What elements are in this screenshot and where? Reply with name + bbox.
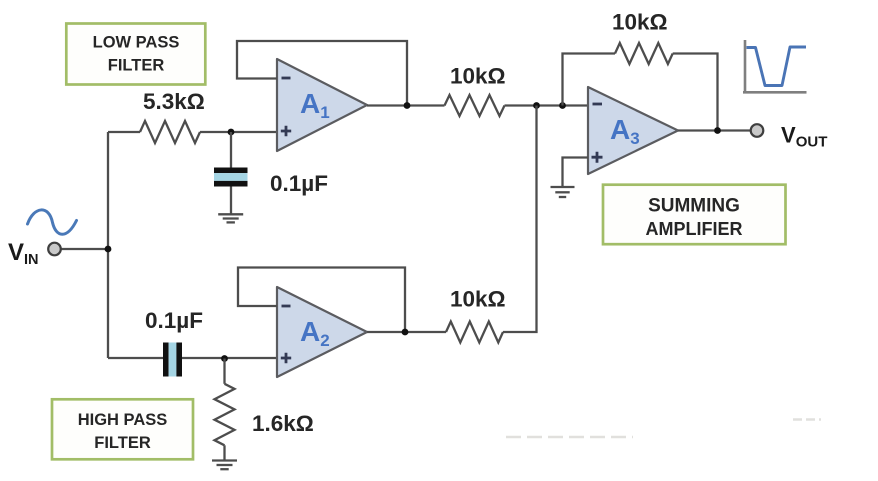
- wire: R1 to A1 non-inverting input: [200, 131, 278, 133]
- wire: R2 to A3 inverting input: [505, 104, 589, 106]
- resistor R5 10k feedback zigzag: [615, 43, 673, 64]
- svg-text:LOW PASS: LOW PASS: [93, 34, 180, 52]
- wire: C1 to ground: [230, 187, 232, 214]
- label box: SUMMING AMPLIFIER: [603, 185, 786, 245]
- wire: R4 up to summing junction: [503, 106, 537, 333]
- wire: node down to capacitor C1: [230, 132, 232, 168]
- op-amp A2: [277, 287, 367, 377]
- terminal: Vin: [48, 243, 61, 256]
- wire: A1 output rail to R2: [367, 104, 445, 106]
- output waveform icon (notch response): [743, 40, 807, 93]
- label box: LOW PASS FILTER: [66, 24, 205, 85]
- svg-text:FILTER: FILTER: [94, 434, 151, 452]
- svg-text:5.3kΩ: 5.3kΩ: [143, 89, 205, 114]
- ground at A3 non-inverting input: [551, 187, 575, 197]
- svg-text:1.6kΩ: 1.6kΩ: [252, 411, 314, 436]
- wire: C2 to A2 non-inverting input: [182, 357, 278, 359]
- node: A3 inverting input / feedback junction: [559, 102, 566, 109]
- op-amp A1: [277, 59, 367, 151]
- svg-text:0.1µF: 0.1µF: [270, 171, 328, 196]
- wire: A1 feedback loop (output to inverting input): [237, 41, 407, 106]
- node: junction of R1, C1, A1+: [228, 129, 235, 136]
- wire: A3 non-inverting input to ground: [563, 158, 589, 187]
- wire: A3 feedback vertical up: [563, 54, 616, 106]
- op-amp A3: [588, 87, 678, 174]
- wire: Vin rail from input terminal to junction: [61, 248, 108, 250]
- node: Vin junction on input bus: [105, 246, 112, 253]
- wire: R3 to ground: [223, 445, 225, 460]
- node: summing junction from HPF branch: [533, 102, 540, 109]
- svg-text:10kΩ: 10kΩ: [612, 10, 668, 35]
- wire: node down to R3: [223, 359, 225, 384]
- label box: HIGH PASS FILTER: [52, 399, 193, 459]
- wire: LPF input segment to R1: [108, 131, 140, 133]
- faint watermark remnant: [506, 420, 821, 438]
- ground below R3: [212, 461, 237, 470]
- svg-text:10kΩ: 10kΩ: [450, 287, 506, 312]
- svg-text:AMPLIFIER: AMPLIFIER: [646, 219, 743, 239]
- wire: A3 output to Vout terminal: [678, 129, 751, 131]
- node: A3 output / feedback junction: [714, 127, 721, 134]
- svg-text:0.1µF: 0.1µF: [145, 308, 203, 333]
- wire: feedback to A3 output: [673, 54, 718, 131]
- ground below C1: [218, 214, 243, 222]
- node: junction of C2, R3, A2+: [221, 355, 228, 362]
- wire: input vertical bus x=108 from LPF branch down to HPF branch: [107, 132, 109, 358]
- svg-text:HIGH PASS: HIGH PASS: [78, 411, 168, 429]
- capacitor C2 0.1uF plates: [163, 343, 182, 377]
- svg-text:SUMMING: SUMMING: [648, 196, 740, 217]
- source sine wave icon: [28, 210, 77, 234]
- terminal: Vout: [751, 124, 764, 137]
- resistor R3 1.6k vertical zigzag: [215, 384, 235, 446]
- wire: HPF input segment to C2: [108, 357, 164, 359]
- wire: A2 feedback loop (output to inverting input): [238, 268, 405, 333]
- wire: A2 output rail to R4: [367, 331, 446, 333]
- svg-text:FILTER: FILTER: [108, 57, 165, 75]
- resistor R1 5.3k zigzag: [140, 121, 200, 143]
- resistor R2 10k zigzag: [445, 95, 505, 116]
- node: A1 output / feedback junction: [404, 102, 411, 109]
- node: A2 output / feedback junction: [402, 329, 409, 336]
- svg-text:10kΩ: 10kΩ: [450, 64, 506, 89]
- resistor R4 10k zigzag: [446, 322, 503, 343]
- capacitor C1 0.1uF plates: [214, 168, 248, 187]
